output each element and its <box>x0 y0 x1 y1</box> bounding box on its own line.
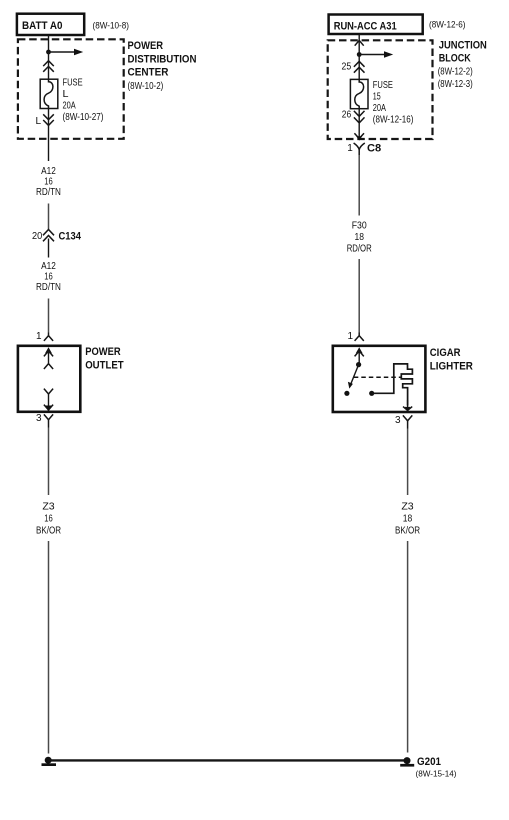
svg-text:DISTRIBUTION: DISTRIBUTION <box>128 53 197 65</box>
branch arrow to other circuits <box>49 49 84 55</box>
connector chevrons above fuse <box>354 61 365 72</box>
component POWER OUTLET box <box>18 346 80 412</box>
svg-text:POWER: POWER <box>85 346 121 358</box>
connector chevrons below fuse <box>43 114 54 125</box>
wire RUN-ACC A31 into junction block <box>358 34 360 54</box>
pin 1 internal terminal <box>355 347 364 362</box>
wire label F30 18 RD/OR <box>347 221 372 255</box>
svg-text:FUSE: FUSE <box>63 78 83 89</box>
pin 3 internal terminal <box>44 389 53 412</box>
label JUNCTION BLOCK <box>438 40 487 91</box>
branch arrow to other circuits <box>359 51 393 57</box>
svg-text:A12: A12 <box>41 261 56 272</box>
svg-text:RUN-ACC A31: RUN-ACC A31 <box>334 21 397 33</box>
svg-text:F30: F30 <box>352 221 367 232</box>
svg-text:L: L <box>63 89 69 100</box>
entry chevron at dashed border <box>355 40 364 45</box>
svg-text:18: 18 <box>403 514 413 525</box>
svg-text:OUTLET: OUTLET <box>85 360 124 372</box>
switch contact dot <box>344 391 349 396</box>
svg-text:Z3: Z3 <box>401 502 414 513</box>
svg-text:16: 16 <box>44 177 53 188</box>
wire to C134 <box>48 204 50 230</box>
fuse value labels <box>63 78 104 124</box>
svg-text:BATT A0: BATT A0 <box>22 20 63 32</box>
wire junction to fuse <box>48 52 50 79</box>
svg-text:RD/TN: RD/TN <box>36 187 61 198</box>
svg-text:C134: C134 <box>59 230 82 242</box>
svg-text:1: 1 <box>347 143 353 154</box>
svg-text:CENTER: CENTER <box>128 67 169 79</box>
svg-text:POWER: POWER <box>128 40 164 52</box>
junction block dashed enclosure <box>328 40 433 139</box>
svg-text:BK/OR: BK/OR <box>395 526 420 537</box>
svg-text:1: 1 <box>347 331 353 342</box>
svg-text:(8W-15-14): (8W-15-14) <box>416 769 457 779</box>
wire to ground <box>407 541 409 753</box>
pin 3 internal terminal <box>403 400 412 412</box>
svg-text:LIGHTER: LIGHTER <box>430 361 473 373</box>
svg-text:C8: C8 <box>367 143 381 155</box>
svg-text:20: 20 <box>32 231 43 242</box>
svg-text:26: 26 <box>342 110 352 121</box>
svg-text:3: 3 <box>395 415 401 426</box>
svg-text:15: 15 <box>373 92 381 103</box>
wire to ground <box>48 541 50 754</box>
svg-text:BK/OR: BK/OR <box>36 526 61 537</box>
svg-text:RD/OR: RD/OR <box>347 244 372 255</box>
wire to Z3 label <box>48 428 50 496</box>
wire to Z3 label <box>407 429 409 496</box>
svg-text:(8W-12-3): (8W-12-3) <box>438 79 473 90</box>
connector chevrons below fuse <box>354 111 365 123</box>
wire label A12 16 RD/TN <box>36 261 61 293</box>
ground splice dot right G201 <box>400 757 414 767</box>
ground splice dot left <box>42 757 57 766</box>
wire to cigar lighter <box>358 259 360 333</box>
svg-text:1: 1 <box>36 331 42 342</box>
svg-text:RD/TN: RD/TN <box>36 282 61 293</box>
wire to F30 label <box>358 155 360 216</box>
junction dot <box>46 50 51 55</box>
label CIGAR LIGHTER <box>430 347 473 373</box>
pin 3 connector half <box>44 414 53 427</box>
svg-text:BLOCK: BLOCK <box>439 53 471 65</box>
svg-text:16: 16 <box>44 272 53 283</box>
svg-text:G201: G201 <box>417 756 441 768</box>
node RUN-ACC A31 feed box <box>329 15 423 35</box>
svg-text:18: 18 <box>354 232 364 243</box>
wire fuse to A12 label <box>48 109 50 162</box>
wire label Z3 16 BK/OR <box>36 502 61 537</box>
svg-text:FUSE: FUSE <box>373 80 393 91</box>
wire label A12 16 RD/TN <box>36 166 61 198</box>
connector C8 <box>354 143 365 155</box>
svg-text:L: L <box>35 116 41 127</box>
mechanical link dashed <box>354 376 402 378</box>
junction dot <box>357 52 362 57</box>
fuse 15 20A <box>350 79 368 108</box>
pin 3 connector half <box>403 415 412 428</box>
svg-text:Z3: Z3 <box>42 502 55 513</box>
svg-text:20A: 20A <box>373 103 386 114</box>
svg-text:(8W-10-8): (8W-10-8) <box>93 21 130 32</box>
switch pivot dot <box>356 362 361 367</box>
component CIGAR LIGHTER box <box>333 346 426 412</box>
connector chevrons above fuse <box>43 61 54 72</box>
svg-text:CIGAR: CIGAR <box>430 347 461 359</box>
node BATT A0 feed box <box>17 14 84 35</box>
svg-text:(8W-12-2): (8W-12-2) <box>438 67 473 78</box>
svg-text:JUNCTION: JUNCTION <box>439 40 487 52</box>
fuse L 20A <box>40 79 58 108</box>
fuse value labels <box>373 80 414 126</box>
svg-text:A12: A12 <box>41 166 56 177</box>
wire to power outlet <box>48 299 50 333</box>
power distribution center dashed enclosure <box>18 39 124 139</box>
svg-text:16: 16 <box>44 514 53 525</box>
svg-text:20A: 20A <box>63 101 76 112</box>
wire fuse to C8 <box>358 109 360 139</box>
pin 1 connector half <box>355 333 364 341</box>
exit arrow at dashed border <box>354 133 364 140</box>
ground bus wire <box>48 759 404 761</box>
label POWER OUTLET <box>85 346 124 372</box>
wire junction to fuse <box>358 55 360 80</box>
connector C134 <box>43 230 54 258</box>
wire label Z3 18 BK/OR <box>395 502 420 537</box>
svg-text:(8W-10-27): (8W-10-27) <box>63 112 104 123</box>
svg-text:3: 3 <box>36 413 42 424</box>
svg-text:(8W-12-6): (8W-12-6) <box>429 20 466 31</box>
pin 1 internal terminal <box>44 347 53 369</box>
heating element <box>372 364 413 406</box>
label POWER DISTRIBUTION CENTER <box>128 40 197 92</box>
wire BATT A0 to junction <box>48 35 50 52</box>
element feed dot <box>369 391 374 396</box>
svg-text:(8W-12-16): (8W-12-16) <box>373 115 414 126</box>
svg-text:25: 25 <box>342 62 352 73</box>
pin 1 connector half <box>44 333 53 341</box>
svg-text:(8W-10-2): (8W-10-2) <box>128 81 164 92</box>
switch blade <box>348 365 359 389</box>
